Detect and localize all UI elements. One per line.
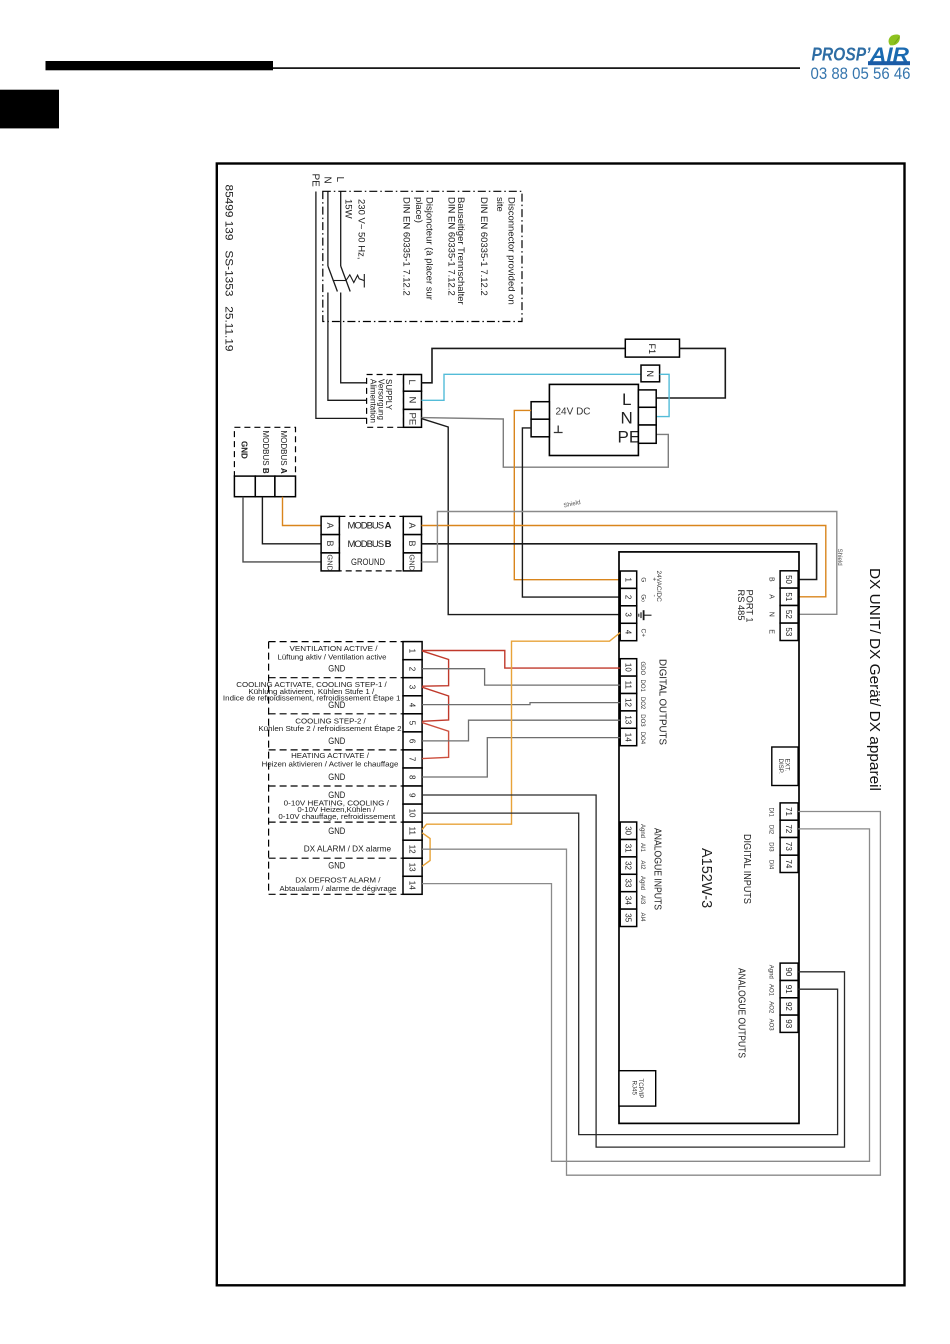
24VDC terminal plus	[531, 402, 549, 420]
wire MODBUS B drop	[262, 497, 321, 544]
fuse F1	[625, 339, 679, 357]
svg-text:50: 50	[784, 575, 793, 584]
svg-text:DIGITAL OUTPUTS: DIGITAL OUTPUTS	[657, 659, 668, 745]
svg-text:C+: C+	[639, 629, 646, 638]
svg-text:GND: GND	[240, 441, 249, 459]
svg-text:GND: GND	[328, 860, 345, 870]
svg-text:Disjoncteur (à placer sur: Disjoncteur (à placer sur	[424, 197, 435, 300]
svg-text:HEATING ACTIVATE /: HEATING ACTIVATE /	[291, 753, 369, 760]
svg-text:Shield: Shield	[836, 549, 843, 567]
svg-text:ANALOGUE OUTPUTS: ANALOGUE OUTPUTS	[736, 968, 747, 1058]
MODBUS terminal block left column A	[321, 516, 339, 534]
svg-text:PE: PE	[309, 174, 320, 188]
svg-text:N: N	[621, 408, 633, 427]
svg-text:PE: PE	[406, 413, 417, 426]
svg-text:ANALOGUE INPUTS: ANALOGUE INPUTS	[652, 828, 663, 910]
wire controller C+ to T11 (orange)	[422, 633, 620, 830]
svg-text:VENTILATION ACTIVE /: VENTILATION ACTIVE /	[290, 646, 378, 653]
svg-text:N: N	[768, 612, 775, 617]
customer terminal block 1-14	[403, 642, 422, 895]
svg-text:RS 485: RS 485	[736, 590, 746, 621]
svg-text:MODBUS A: MODBUS A	[348, 521, 392, 532]
svg-text:10: 10	[624, 663, 633, 672]
svg-text:30: 30	[624, 826, 633, 835]
svg-text:L: L	[622, 390, 631, 409]
svg-text:Disconnector provided on: Disconnector provided on	[506, 197, 517, 305]
power supply U2 24V DC box	[549, 384, 638, 455]
svg-text:52: 52	[784, 610, 793, 619]
customer label rows dashed borders	[269, 642, 403, 895]
svg-text:11: 11	[408, 827, 417, 836]
svg-text:AO3: AO3	[767, 1019, 773, 1032]
svg-text:1: 1	[408, 649, 417, 654]
switch Q1 trip element	[346, 274, 364, 288]
controller U1 A152W-3 main box	[619, 552, 799, 1124]
svg-text:74: 74	[784, 860, 793, 869]
svg-text:A: A	[768, 594, 775, 599]
pin labels G G0 earth C+	[639, 577, 657, 637]
wire MODBUS A to port 51 (orange)	[422, 526, 826, 597]
wire PE incoming	[316, 192, 404, 419]
svg-text:14: 14	[624, 733, 633, 742]
svg-text:PE: PE	[618, 427, 641, 446]
svg-text:230 V~ 50 Hz,: 230 V~ 50 Hz,	[355, 199, 366, 259]
wire MODBUS A drop (orange)	[283, 497, 322, 526]
svg-text:N: N	[321, 177, 332, 184]
svg-text:MODBUS B: MODBUS B	[261, 431, 270, 474]
SUPPLY dashed label box	[367, 375, 404, 428]
svg-text:A: A	[325, 523, 335, 529]
pin labels B A N E	[768, 577, 775, 634]
header bar	[0, 61, 800, 128]
wire L below switch	[341, 293, 404, 383]
24VDC output terminal L	[638, 390, 656, 407]
wire T1 to controller 10 (red)	[422, 651, 620, 669]
pin labels Agnd AO1 AO2 AO3	[767, 965, 773, 1031]
svg-text:DIN EN 60335-1 7.12.2: DIN EN 60335-1 7.12.2	[445, 197, 456, 296]
wire T2 to controller 11 (grey)	[422, 669, 620, 685]
ext display connector	[772, 747, 798, 786]
svg-text:GND: GND	[328, 826, 345, 836]
pin labels Agnd AI1 AI2 Agnd AI3 AI4	[639, 824, 645, 922]
svg-text:L: L	[334, 177, 345, 183]
svg-text:A152W-3: A152W-3	[698, 848, 714, 908]
svg-text:DX DEFROST ALARM /: DX DEFROST ALARM /	[295, 878, 380, 885]
svg-text:A: A	[407, 523, 417, 529]
wire T14 to controller 72 DI2	[422, 829, 869, 1161]
disconnector note box (dash-dot)	[323, 191, 522, 321]
svg-text:Indice de refroidissement, ref: Indice de refroidissement, refroidisseme…	[223, 694, 401, 703]
svg-text:DIN EN 60335-1 7.12.2: DIN EN 60335-1 7.12.2	[400, 197, 411, 296]
svg-text:DX ALARM / DX alarme: DX ALARM / DX alarme	[304, 844, 392, 854]
svg-text:GND: GND	[328, 772, 345, 782]
svg-text:RJ45: RJ45	[630, 1081, 637, 1096]
svg-text:GDO: GDO	[639, 662, 645, 676]
svg-text:5: 5	[408, 721, 417, 726]
wire T12 to controller 71 DI1	[422, 812, 880, 1176]
svg-text:GND: GND	[328, 664, 345, 674]
wire link T1-T3 (red)	[422, 651, 449, 686]
MODBUS field connector terminals GND/B/A	[234, 476, 255, 497]
TCP/IP RJ45 connector	[619, 1071, 656, 1106]
svg-text:AI2: AI2	[639, 860, 645, 870]
svg-text:DI3: DI3	[767, 842, 773, 852]
wire F1 to 24VDC L	[656, 348, 725, 398]
logo PROSP'AIR	[811, 35, 911, 84]
24VDC output terminal PE	[638, 425, 656, 443]
wire PE supply to controller earth T3	[422, 419, 621, 615]
wire N incoming (above switch)	[327, 192, 329, 267]
svg-text:2: 2	[624, 595, 633, 600]
svg-text:MODBUS A: MODBUS A	[279, 431, 288, 474]
svg-text:B: B	[407, 541, 417, 547]
svg-text:AO2: AO2	[767, 1001, 773, 1014]
svg-text:0-10V chauffage, refroidisseme: 0-10V chauffage, refroidissement	[278, 814, 395, 821]
svg-text:3: 3	[408, 685, 417, 690]
wire MODBUS B to port 50	[422, 544, 817, 580]
svg-text:GROUND: GROUND	[351, 557, 385, 568]
controller terminals 71-74	[780, 803, 798, 873]
svg-text:24VAC/DC: 24VAC/DC	[655, 571, 662, 603]
svg-text:85499 139 SS-1353 25.11.19: 85499 139 SS-1353 25.11.19	[223, 185, 235, 352]
pin labels DI1-DI4	[767, 808, 773, 870]
24VDC terminal minus	[531, 419, 549, 437]
svg-text:DISP.: DISP.	[777, 759, 784, 775]
svg-text:GND: GND	[326, 554, 335, 571]
wire T6 to controller 13 (grey)	[422, 720, 620, 741]
svg-text:33: 33	[624, 879, 633, 888]
svg-text:3: 3	[624, 612, 633, 617]
supply terminal PE	[404, 409, 422, 427]
wire link T11-T13 (orange)	[422, 833, 430, 867]
controller terminals 50-53	[780, 571, 798, 641]
svg-text:Abtaualarm / alarme de dégivra: Abtaualarm / alarme de dégivrage	[280, 886, 397, 893]
svg-text:91: 91	[784, 985, 793, 994]
disconnector note text EN	[400, 197, 516, 305]
svg-text:12: 12	[624, 698, 633, 707]
svg-text:L: L	[406, 380, 417, 385]
svg-text:Heizen aktivieren / Activer le: Heizen aktivieren / Activer le chauffage	[262, 761, 399, 768]
svg-text:24V DC: 24V DC	[556, 406, 591, 418]
svg-text:PROSP’: PROSP’	[812, 45, 872, 65]
svg-text:DO2: DO2	[639, 697, 645, 710]
wire N supply to N-link (cyan)	[422, 374, 642, 400]
svg-text:53: 53	[784, 627, 793, 636]
wire 24V minus to controller T2	[522, 428, 620, 597]
svg-text:DIGITAL INPUTS: DIGITAL INPUTS	[741, 834, 752, 904]
svg-text:71: 71	[784, 807, 793, 816]
svg-text:DI4: DI4	[767, 860, 773, 870]
svg-text:13: 13	[624, 715, 633, 724]
rating label 230V	[343, 199, 367, 259]
svg-text:35: 35	[624, 913, 633, 922]
MODBUS terminal block left column B	[321, 535, 339, 553]
svg-text:31: 31	[624, 844, 633, 853]
svg-text:G0: G0	[639, 594, 646, 602]
svg-text:93: 93	[784, 1019, 793, 1028]
wire T10 to controller 91 AO1	[422, 813, 837, 1135]
wire T4 to controller 12 (grey)	[422, 703, 620, 705]
svg-text:9: 9	[408, 793, 417, 798]
svg-text:site: site	[494, 197, 505, 212]
wire N below switch	[328, 293, 404, 401]
MODBUS terminal block right column B	[403, 535, 421, 553]
svg-text:AO1: AO1	[767, 984, 773, 997]
drawing frame	[217, 164, 905, 1286]
svg-text:DO1: DO1	[639, 680, 645, 693]
wire 24V plus to controller T1 (orange)	[514, 410, 620, 579]
wire shield GND to port 52 (grey)	[422, 512, 837, 615]
wire PE supply to 24VDC PE (grey)	[422, 418, 669, 468]
MODBUS terminal block right column A	[403, 516, 421, 534]
fuse link N	[641, 365, 660, 382]
svg-text:Agnd: Agnd	[639, 876, 645, 890]
svg-text:AI1: AI1	[639, 843, 645, 853]
svg-text:E: E	[768, 629, 775, 634]
switch Q1 tie bar	[333, 280, 346, 282]
svg-text:72: 72	[784, 825, 793, 834]
svg-text:1: 1	[624, 578, 633, 583]
svg-text:DO3: DO3	[639, 714, 645, 727]
svg-text:7: 7	[408, 757, 417, 762]
svg-text:MODBUS B: MODBUS B	[348, 539, 392, 550]
pin labels GDO DO1-DO4	[639, 662, 645, 745]
MODBUS field connector dashed label box	[234, 427, 295, 476]
svg-text:6: 6	[408, 739, 417, 744]
svg-text:GND: GND	[408, 554, 417, 571]
svg-text:10: 10	[408, 809, 417, 818]
svg-text:8: 8	[408, 775, 417, 780]
svg-text:15W: 15W	[343, 199, 354, 219]
svg-text:DIN EN 60335-1 7.12.2: DIN EN 60335-1 7.12.2	[478, 197, 489, 296]
controller terminals 90-93	[780, 963, 798, 1032]
svg-text:GND: GND	[328, 736, 345, 746]
svg-text:COOLING STEP-2 /: COOLING STEP-2 /	[295, 719, 366, 726]
svg-text:90: 90	[784, 967, 793, 976]
svg-text:Alimentation: Alimentation	[369, 379, 378, 423]
earth symbol pin 3	[644, 614, 652, 616]
svg-text:B: B	[768, 577, 775, 582]
svg-text:92: 92	[784, 1002, 793, 1011]
controller terminals 30-35	[620, 822, 637, 927]
svg-text:34: 34	[624, 896, 633, 905]
earth symbol inside 24VDC	[554, 426, 563, 433]
wire T8 to controller 14 (grey)	[422, 738, 620, 777]
customer row texts	[223, 646, 402, 893]
svg-text:place): place)	[413, 197, 424, 223]
MODBUS terminal block right column GND	[403, 553, 421, 571]
svg-text:4: 4	[624, 630, 633, 635]
svg-text:73: 73	[784, 842, 793, 851]
MODBUS terminal block left column GND	[321, 553, 339, 571]
wire link T5-T7 (red)	[422, 723, 449, 759]
svg-text:03 88 05 56 46: 03 88 05 56 46	[811, 64, 911, 83]
svg-text:Lüftung aktiv / Ventilation ac: Lüftung aktiv / Ventilation active	[278, 655, 387, 662]
svg-text:B: B	[325, 541, 335, 547]
svg-text:N: N	[406, 397, 417, 404]
svg-text:32: 32	[624, 861, 633, 870]
svg-text:4: 4	[408, 703, 417, 708]
svg-text:DO4: DO4	[639, 732, 645, 745]
svg-text:GND: GND	[328, 790, 345, 800]
wire MODBUS GND drop	[243, 497, 321, 562]
svg-text:GND: GND	[328, 700, 345, 710]
svg-text:F1: F1	[647, 344, 657, 355]
svg-text:2: 2	[408, 667, 417, 672]
svg-text:G: G	[639, 577, 646, 582]
switch Q1 pole L	[341, 266, 351, 292]
svg-text:11: 11	[624, 681, 633, 690]
wire L supply to F1	[422, 348, 626, 382]
svg-text:12: 12	[408, 845, 417, 854]
svg-text:AI4: AI4	[639, 913, 645, 923]
wire link T3-T5 (red)	[422, 687, 449, 721]
svg-text:DI1: DI1	[767, 808, 773, 818]
24VDC output terminal N	[638, 407, 656, 425]
svg-text:Kühlen Stufe 2 / refroidisseme: Kühlen Stufe 2 / refroidissement Étape 2	[258, 724, 401, 733]
wire N-link to 24VDC N (cyan)	[656, 374, 669, 416]
svg-text:AI3: AI3	[639, 895, 645, 905]
wire T9 to controller 90 Agnd	[422, 795, 844, 1147]
controller terminals 1-4	[620, 571, 637, 641]
svg-text:14: 14	[408, 881, 417, 890]
label PORT 1 RS 485	[736, 590, 755, 623]
svg-text:13: 13	[408, 863, 417, 872]
svg-text:Agnd: Agnd	[767, 965, 773, 979]
svg-text:Agnd: Agnd	[639, 824, 645, 838]
svg-text:51: 51	[784, 592, 793, 601]
wire L incoming (above switch)	[340, 192, 342, 267]
supply terminal N	[404, 391, 422, 409]
supply terminal L	[404, 375, 422, 392]
svg-text:DX UNIT/ DX Gerät/ DX appareil: DX UNIT/ DX Gerät/ DX appareil	[866, 568, 883, 791]
svg-text:N: N	[645, 371, 655, 378]
MODBUS label dashed box	[339, 516, 403, 571]
switch Q1 pole N	[328, 266, 338, 292]
controller terminals 10-14	[620, 659, 637, 746]
svg-text:DI2: DI2	[767, 825, 773, 835]
